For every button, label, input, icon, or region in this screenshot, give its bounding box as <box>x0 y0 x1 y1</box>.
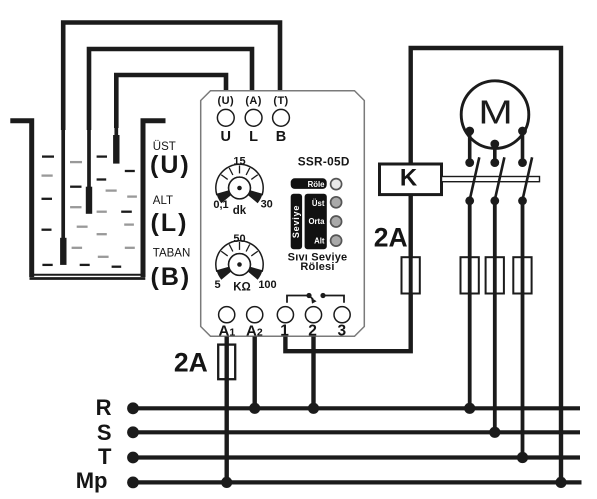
terminal 1 circle <box>277 307 293 323</box>
LED Alt <box>331 235 342 246</box>
svg-text:Orta: Orta <box>308 217 325 226</box>
contactor K box <box>380 164 442 195</box>
motor M <box>461 81 529 149</box>
Seviye panel vertical bar <box>291 194 302 249</box>
motor leads <box>468 131 472 163</box>
fuse motor line 3 <box>513 257 531 293</box>
wire terminal 1 to fuse/K/top and down to Mp <box>285 48 561 482</box>
junction dot T2-R <box>308 403 319 414</box>
junction dot A2-R <box>249 403 260 414</box>
fuse motor line 1 <box>461 257 479 293</box>
Role panel <box>291 178 327 189</box>
svg-text:L: L <box>249 129 258 145</box>
svg-text:(U): (U) <box>150 151 191 179</box>
LED Orta <box>331 216 342 227</box>
terminal 3 circle <box>334 307 350 323</box>
terminal A2 circle <box>247 307 263 323</box>
terminal 2 circle <box>305 307 321 323</box>
svg-text:KΩ: KΩ <box>233 282 251 294</box>
svg-text:M: M <box>478 93 512 130</box>
svg-text:B: B <box>276 129 286 145</box>
svg-text:100: 100 <box>258 279 276 291</box>
svg-text:Röle: Röle <box>308 180 326 189</box>
svg-text:(A): (A) <box>245 95 261 107</box>
svg-text:(B): (B) <box>151 263 192 291</box>
fuse motor line 2 <box>486 257 504 293</box>
wire terminal 2 to R <box>311 337 315 409</box>
svg-text:T: T <box>98 444 112 469</box>
terminal U circle <box>217 109 234 126</box>
wire A2 to R <box>252 337 256 409</box>
svg-text:5: 5 <box>215 279 221 291</box>
junction dot motor1-R <box>464 403 475 414</box>
svg-text:TABAN: TABAN <box>153 248 191 260</box>
svg-text:15: 15 <box>233 156 245 168</box>
bus line Mp <box>133 480 582 484</box>
probe L electrode tip <box>86 187 92 214</box>
junction dot motor2-S <box>489 427 500 438</box>
dial KOhm (sensitivity) <box>216 241 263 280</box>
relay module SSR-05D body <box>201 91 365 337</box>
svg-text:Alt: Alt <box>314 237 325 246</box>
svg-text:2A: 2A <box>174 348 208 378</box>
terminal A1 circle <box>219 307 235 323</box>
contact lower dots <box>465 196 474 205</box>
svg-text:Seviye: Seviye <box>291 205 301 238</box>
svg-text:(U): (U) <box>218 95 234 107</box>
svg-text:S: S <box>97 420 112 445</box>
contactor linkage bar <box>442 177 540 182</box>
LED Role <box>331 179 342 190</box>
svg-text:ALT: ALT <box>153 195 173 207</box>
contact upper dots <box>465 158 474 167</box>
terminal L circle <box>245 109 262 126</box>
svg-text:(T): (T) <box>273 95 288 107</box>
bus line T <box>133 455 580 459</box>
relay contact symbol (SPDT) <box>287 296 344 303</box>
svg-text:(L): (L) <box>151 209 189 237</box>
LED Ust <box>331 197 342 208</box>
svg-text:U: U <box>221 129 231 145</box>
bus line R <box>133 406 580 410</box>
wire probe L to terminal L (middle bracket) <box>89 49 252 130</box>
Seviye panel labels bar <box>305 194 327 249</box>
svg-text:R: R <box>96 395 112 420</box>
svg-text:Rölesi: Rölesi <box>300 261 334 273</box>
probe U electrode tip <box>113 135 119 164</box>
svg-text:0,1: 0,1 <box>213 199 228 211</box>
svg-text:dk: dk <box>233 205 247 217</box>
svg-text:3: 3 <box>337 323 346 340</box>
probe B electrode tip <box>60 238 66 265</box>
terminal B circle <box>273 109 290 126</box>
bus start dots <box>127 402 139 414</box>
tank left wall with flange <box>10 121 31 277</box>
svg-text:50: 50 <box>233 233 245 245</box>
wire probe B to terminal B (outer bracket) <box>63 23 280 131</box>
svg-text:2A: 2A <box>374 222 408 252</box>
fuse 2A control left <box>218 345 235 380</box>
motor terminal dots <box>465 127 474 136</box>
svg-text:Mp: Mp <box>76 468 108 493</box>
junction dot right-Mp <box>555 477 566 488</box>
svg-text:Üst: Üst <box>312 199 325 208</box>
tank right wall with flange <box>143 121 166 277</box>
bus line S <box>133 430 580 434</box>
contact blades <box>470 157 480 201</box>
junction dot motor3-T <box>517 452 528 463</box>
motor line wires to bus <box>468 201 472 408</box>
svg-text:30: 30 <box>261 199 273 211</box>
tank bottom double line <box>30 274 146 276</box>
svg-text:SSR-05D: SSR-05D <box>298 155 350 169</box>
fuse 2A control right <box>402 257 420 293</box>
svg-text:K: K <box>400 165 418 192</box>
dial dk (timer) <box>216 164 263 203</box>
wire A1 to Mp <box>224 337 228 483</box>
junction dot A1-Mp <box>221 477 232 488</box>
wire probe U to terminal U (inner bracket) <box>116 75 226 128</box>
water level dashes <box>42 157 137 267</box>
